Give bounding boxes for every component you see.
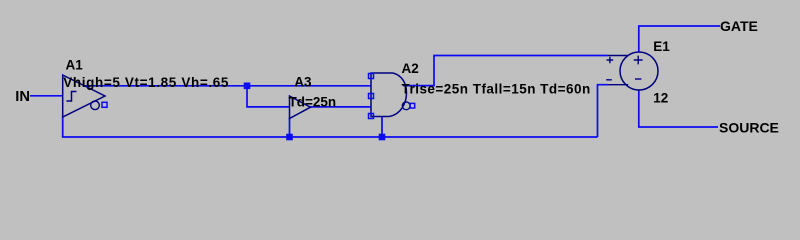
svg-text:A3: A3 [294, 74, 312, 89]
wire A3 left edge down to bottom rail [289, 118, 291, 138]
node junction at A1 output net [244, 83, 251, 90]
node junction below A2 on rail [379, 134, 386, 141]
wire E1 bottom output to SOURCE [639, 90, 718, 127]
svg-text:A1: A1 [66, 58, 84, 73]
wire A3 output to A2 input 4 [311, 106, 372, 108]
wire A1 left edge down to bottom rail [62, 116, 64, 137]
E1 plus sign inside [634, 56, 643, 65]
A2 floating pin marker input 3 [369, 94, 374, 99]
E1 minus sign inside [635, 78, 641, 80]
svg-text:IN: IN [15, 89, 30, 105]
svg-text:Trise=25n Tfall=15n Td=60n: Trise=25n Tfall=15n Td=60n [402, 81, 591, 96]
op-amp U? : schmitt trigger A1 triangle [63, 75, 105, 117]
A1 floating pin marker [102, 102, 107, 107]
wire IN to A1 input [30, 95, 63, 97]
E1 control plus pin stub [608, 55, 628, 57]
wire junction drop to A3 input [247, 86, 290, 107]
voltage source E1 circle [620, 52, 658, 90]
wire A1 output to A2 input 2 [83, 85, 371, 87]
svg-text:Vhigh=5 Vt=1.85 Vh=.65: Vhigh=5 Vt=1.85 Vh=.65 [63, 75, 229, 90]
svg-text:SOURCE: SOURCE [719, 119, 779, 135]
E1 control plus label [607, 57, 614, 64]
svg-text:E1: E1 [653, 39, 670, 54]
AND gate A2 arc [389, 73, 407, 117]
svg-text:12: 12 [653, 91, 668, 106]
E1 control minus label [606, 79, 612, 81]
A1 hysteresis glyph [67, 92, 77, 102]
wire A2 output up and right to E1 control plus [403, 56, 608, 86]
svg-text:GATE: GATE [720, 18, 758, 34]
E1 control minus pin stub [608, 84, 628, 86]
node junction below A3 on rail [286, 134, 293, 141]
A2 floating pin marker input 1 [369, 74, 374, 79]
buffer A3 triangle [290, 96, 311, 119]
wire E1 top output to GATE [639, 26, 720, 52]
A1 inverted output bubble [91, 101, 100, 110]
AND gate A2 body [371, 73, 393, 117]
A2 floating pin marker input 5 [369, 114, 374, 119]
A2 inverted output bubble [402, 102, 410, 110]
svg-text:Td=25n: Td=25n [289, 94, 337, 109]
svg-text:A2: A2 [402, 61, 419, 76]
A2 floating pin marker inverted output [410, 103, 415, 108]
wire bottom rail [62, 136, 598, 138]
wire bottom rail up to E1 control minus [598, 85, 609, 137]
wire A2 common pin down to bottom rail [381, 117, 383, 138]
